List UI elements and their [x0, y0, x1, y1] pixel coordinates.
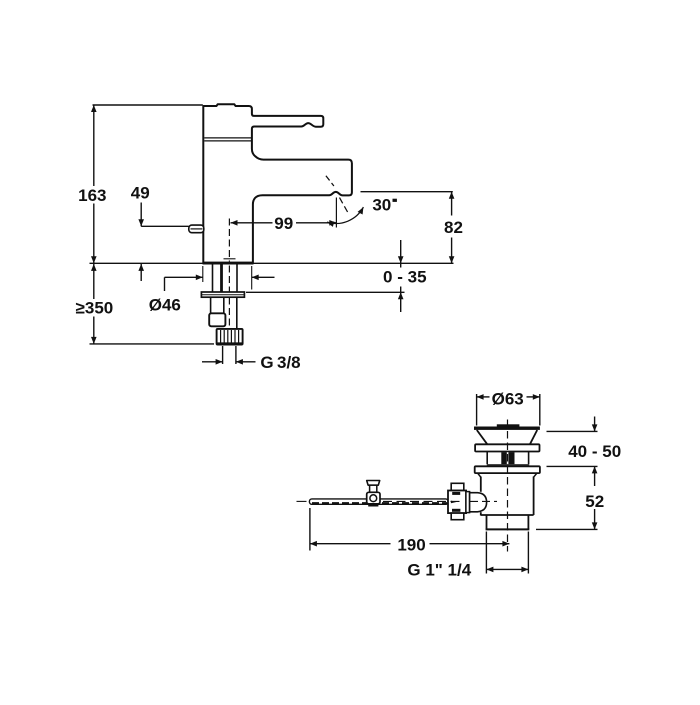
- svg-text:190: 190: [397, 536, 425, 555]
- svg-text:40 - 50: 40 - 50: [568, 442, 621, 461]
- svg-text:30: 30: [372, 196, 391, 215]
- svg-text:99: 99: [274, 214, 293, 233]
- svg-text:52: 52: [585, 492, 604, 511]
- svg-text:163: 163: [78, 186, 106, 205]
- svg-text:≥350: ≥350: [76, 299, 114, 318]
- svg-text:Ø63: Ø63: [492, 389, 524, 408]
- svg-text:49: 49: [131, 183, 150, 202]
- svg-text:G 1" 1/4: G 1" 1/4: [407, 561, 471, 580]
- svg-text:0 - 35: 0 - 35: [383, 267, 426, 286]
- svg-text:G 3/8: G 3/8: [260, 353, 300, 372]
- svg-text:82: 82: [444, 218, 463, 237]
- svg-text:Ø46: Ø46: [149, 295, 181, 314]
